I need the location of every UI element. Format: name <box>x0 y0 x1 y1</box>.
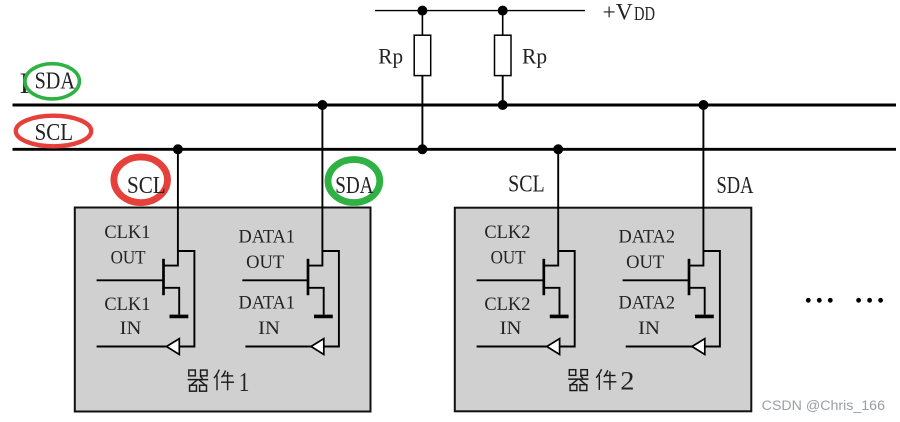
resistor R1 (Rp pull-up for SCL) <box>414 35 431 75</box>
svg-text:OUT: OUT <box>246 253 284 273</box>
junction dot: SCL bus / R1 <box>417 144 427 154</box>
svg-text:IN: IN <box>120 319 142 339</box>
wire: DATA1 IN line <box>245 346 311 348</box>
svg-text:CLK2: CLK2 <box>484 295 530 315</box>
ellipsis dots (more devices) group 1 <box>806 298 833 303</box>
svg-text:OUT: OUT <box>626 253 664 273</box>
wire: CLK2 IN line <box>477 346 547 348</box>
junction dot: SCL bus / device2 CLK drop <box>553 144 563 154</box>
wire: SCL bus line <box>13 148 897 151</box>
ground bar (DATA1 source) <box>314 315 333 319</box>
ground bar (CLK1 source) <box>170 315 189 319</box>
red ellipse around SCL label <box>16 116 91 147</box>
svg-text:OUT: OUT <box>111 249 146 269</box>
svg-text:2: 2 <box>620 366 634 395</box>
input buffer triangle (DATA1 IN) <box>311 339 324 355</box>
device box 器件2 <box>455 208 752 412</box>
svg-text:SCL: SCL <box>508 171 545 197</box>
svg-text:CLK1: CLK1 <box>104 223 150 243</box>
ellipsis dots (more devices) group 2 <box>856 298 883 303</box>
svg-text:DATA2: DATA2 <box>619 294 676 314</box>
wire: R1 top stub <box>421 11 423 36</box>
svg-text:Rp: Rp <box>522 43 547 68</box>
input buffer triangle (CLK2 IN) <box>547 339 560 355</box>
svg-text:OUT: OUT <box>491 249 526 269</box>
resistor R2 (Rp pull-up for SDA) <box>495 35 512 75</box>
transistor Q3 (CLK2 open-drain NMOS) <box>544 251 560 315</box>
ground bar (DATA2 source) <box>695 315 714 319</box>
junction dot: SCL bus / device1 CLK drop <box>173 144 183 154</box>
input buffer triangle (CLK1 IN) <box>167 339 180 355</box>
wire: DATA1 pin node corner to input-buffer branch <box>322 251 339 347</box>
wire: R1 bottom lead down to SCL bus (crosses SDA bus, no join) <box>421 76 423 150</box>
svg-text:IN: IN <box>258 319 280 339</box>
svg-text:CLK1: CLK1 <box>104 295 150 315</box>
svg-text:+V: +V <box>603 0 633 25</box>
device label 器件2 <box>568 366 634 395</box>
device label 器件1 <box>188 367 250 397</box>
ground bar (CLK2 source) <box>550 315 569 319</box>
wire: SCL bus drop to device1 CLK pin <box>177 149 179 251</box>
svg-text:CLK2: CLK2 <box>484 223 530 243</box>
wire: DATA2 gate input line <box>623 279 689 281</box>
wire: DATA2 pin node corner to input-buffer branch <box>703 251 720 347</box>
input buffer triangle (DATA2 IN) <box>692 339 705 355</box>
transistor Q2 (DATA1 open-drain NMOS) <box>308 251 324 315</box>
junction dot: rail / R1 <box>417 6 427 16</box>
label +VDD <box>603 0 656 25</box>
wire: CLK2 gate input line <box>477 279 544 281</box>
wire: SDA bus drop to device2 DATA pin <box>702 105 704 251</box>
wire: SDA bus drop to device1 DATA pin <box>321 105 323 251</box>
svg-text:CSDN @Chris_166: CSDN @Chris_166 <box>762 398 885 413</box>
svg-text:IN: IN <box>500 319 522 339</box>
svg-text:SDA: SDA <box>35 68 76 94</box>
wire: R2 bottom lead down to SDA bus <box>502 76 504 105</box>
transistor Q1 (CLK1 open-drain NMOS) <box>164 251 180 315</box>
svg-text:IN: IN <box>638 319 660 339</box>
svg-text:DATA1: DATA1 <box>239 294 296 314</box>
junction dot: rail / R2 <box>498 6 508 16</box>
wire: DATA1 gate input line <box>242 279 308 281</box>
svg-text:1: 1 <box>239 367 250 397</box>
wire: SCL bus drop to device2 CLK pin <box>557 149 559 251</box>
wire: DATA2 IN line <box>626 346 692 348</box>
wire: CLK1 gate input line <box>97 279 164 281</box>
wire: CLK1 pin node corner to input-buffer branch <box>178 251 195 347</box>
svg-text:DD: DD <box>634 3 655 25</box>
wire: SDA bus line <box>13 104 897 107</box>
svg-text:Rp: Rp <box>378 43 403 68</box>
wire: CLK1 IN line <box>97 346 167 348</box>
svg-text:SDA: SDA <box>335 173 374 199</box>
svg-text:SDA: SDA <box>717 173 754 199</box>
green ellipse around top SDA label <box>25 64 79 99</box>
device box 器件1 <box>75 208 371 412</box>
junction dot: SDA bus / device1 DATA drop <box>317 100 327 110</box>
junction dot: SDA bus / R2 <box>498 100 508 110</box>
svg-text:DATA1: DATA1 <box>239 227 296 247</box>
junction dot: SDA bus / device2 DATA drop <box>698 100 708 110</box>
transistor Q4 (DATA2 open-drain NMOS) <box>689 251 705 315</box>
svg-text:SCL: SCL <box>35 120 74 146</box>
wire: R2 top stub <box>502 11 504 36</box>
wire: CLK2 pin node corner to input-buffer branch <box>558 251 575 347</box>
svg-text:SCL: SCL <box>127 173 166 199</box>
green circle around device1 SDA pin label <box>328 160 380 203</box>
red circle around device1 SCL pin label <box>114 157 168 203</box>
svg-text:DATA2: DATA2 <box>619 227 676 247</box>
wire: +VDD supply rail <box>375 10 585 12</box>
